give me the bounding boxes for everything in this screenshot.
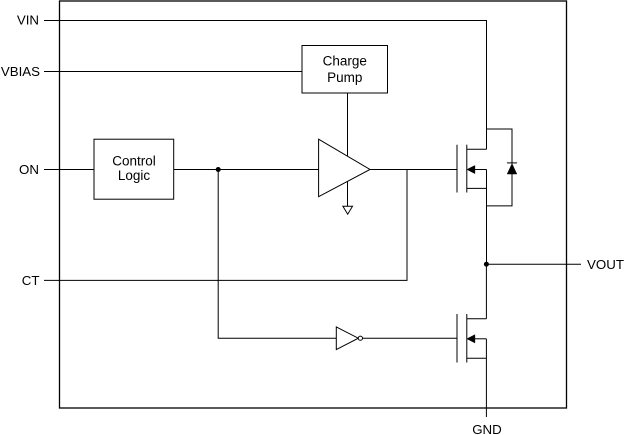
control logic block (94, 139, 174, 199)
transistor Q2 pulldown FET gate bar (456, 314, 458, 363)
inverter bubble (358, 336, 362, 340)
IC boundary box (60, 1, 567, 408)
transistor Q1 channel bar (466, 145, 468, 193)
ground symbol (343, 206, 353, 214)
wire ON to control logic (44, 169, 94, 171)
svg-text:Charge: Charge (323, 54, 367, 69)
diode D1 body diode cathode bar (507, 162, 517, 164)
wire gate node down to CT (44, 170, 407, 281)
transistor Q2 drain stub (467, 318, 487, 320)
wire driver output to pass FET gate (370, 169, 457, 171)
wire node down to inverter (218, 170, 336, 339)
wire VOUT node down to Q2 drain (485, 264, 487, 319)
op-amp driver triangle (319, 139, 370, 197)
transistor Q2 body arrow (467, 335, 475, 343)
transistor Q2 channel bar (466, 314, 468, 363)
svg-text:Logic: Logic (118, 168, 151, 183)
transistor Q1 source stub (467, 187, 487, 189)
node junction dot (216, 167, 221, 172)
wire Q2 source to GND (485, 339, 487, 417)
wire charge pump to driver (347, 93, 349, 156)
charge pump block (302, 46, 388, 94)
inverter buffer triangle (336, 327, 358, 350)
wire pass FET source to VOUT node (486, 170, 488, 265)
svg-text:VIN: VIN (17, 13, 39, 28)
wire VIN to pass FET drain (44, 21, 487, 150)
node VOUT dot (484, 262, 489, 267)
wire control logic to driver input (174, 169, 319, 171)
wire driver ground stem (347, 182, 349, 207)
wire inverter to Q2 gate (363, 337, 458, 339)
transistor Q2 source stub (467, 357, 487, 359)
svg-text:GND: GND (472, 422, 502, 435)
transistor Q1 body line (475, 169, 487, 171)
diode D1 body diode triangle (507, 164, 517, 174)
svg-text:VBIAS: VBIAS (1, 64, 40, 79)
svg-text:Pump: Pump (327, 70, 362, 85)
transistor Q1 body arrow (467, 166, 475, 174)
transistor Q1 pass FET gate bar (456, 145, 458, 193)
svg-text:ON: ON (19, 162, 39, 177)
wire VOUT (486, 263, 581, 265)
transistor Q2 body line (475, 338, 487, 340)
svg-text:VOUT: VOUT (587, 257, 624, 272)
svg-text:CT: CT (22, 273, 40, 288)
svg-text:Control: Control (112, 154, 156, 169)
wire VBIAS to Charge Pump (44, 71, 302, 73)
transistor Q1 drain stub (467, 148, 487, 150)
wire VIN branch to body diode (487, 129, 513, 206)
